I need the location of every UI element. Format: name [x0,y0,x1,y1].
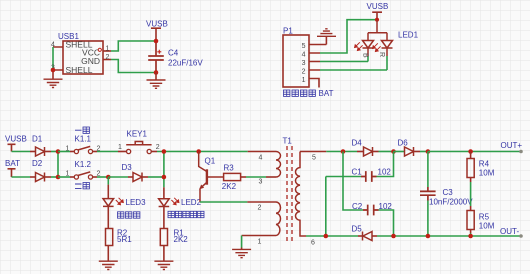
LED1 emission arrows [355,42,381,51]
capacitor C2 102 [352,202,394,236]
power port BAT (left) [5,159,20,177]
svg-text:22uF/16V: 22uF/16V [168,58,203,67]
svg-text:R5: R5 [479,212,490,221]
junction node Q1 collector [196,149,201,154]
svg-text:10M: 10M [479,221,495,230]
svg-text:2: 2 [156,144,160,151]
resistor R5 10M [467,206,495,233]
svg-text:LED2: LED2 [181,198,202,207]
junction node J2 (D4/D6/C1) [391,149,396,154]
svg-text:1: 1 [258,239,262,246]
wire VUSB to D1 [12,151,31,153]
svg-text:OUT+: OUT+ [501,141,523,150]
svg-text:6: 6 [311,240,315,247]
svg-text:4: 4 [51,42,55,49]
power port VUSB (left) [5,135,27,152]
svg-text:K1.1: K1.1 [75,135,92,144]
comment text first gear [75,129,82,131]
wire R4 to R5 [470,182,472,206]
capacitor C3 10nF/2000V [420,152,473,237]
svg-text:3: 3 [302,60,306,67]
svg-text:VUSB: VUSB [146,19,168,28]
svg-text:R4: R4 [479,159,490,168]
junction node J1 (pin5/C2 feed) [341,149,346,154]
junction node VUSB [154,39,159,44]
ground under C4 [155,73,157,80]
resistor R1 [160,229,188,246]
LED LED3 [103,198,146,229]
svg-text:B: B [362,53,369,58]
wire BAT to D2 [12,176,31,178]
wire K1.1 to KEY1 [97,151,118,153]
capacitor C1 102 [326,152,394,182]
svg-text:1: 1 [118,144,122,151]
transformer T1 [242,137,316,247]
wire Q1 emitter to T1 pin2 [200,201,247,203]
diode D2 [32,159,51,182]
comment text work indicator [168,211,174,217]
svg-text:R: R [378,52,385,57]
comment text (charging module) [284,90,290,96]
svg-text:C2: C2 [352,202,363,211]
diode D6 [394,139,421,156]
svg-text:VUSB: VUSB [367,2,389,11]
bottom row wire (pin6 to OUT-) [306,235,358,237]
T1 pin1 wire to ground [242,235,276,237]
svg-text:2K2: 2K2 [222,182,237,191]
svg-text:R3: R3 [224,164,235,173]
switch K1.2 [66,160,101,179]
ground at P1 pin5 (pointing up) [320,36,326,44]
wire LED2 column [163,152,165,188]
wire P1 pin2 to LED1 R cathode [320,69,387,71]
junction node C2/bottom [391,234,396,239]
diode D3 [122,163,149,182]
wire J3 to OUT+ [428,151,520,153]
svg-text:VUSB: VUSB [5,135,27,144]
power port VUSB (top) [146,19,168,41]
junction node D3 out [162,175,167,180]
ground under R2 [107,246,109,261]
diode D5 [352,224,378,240]
wire node to K1.1 [58,151,70,153]
junction node D2 out [56,175,61,180]
junction node USB shell [51,68,56,73]
wire C1 left down to bottom row [325,177,327,237]
svg-text:2: 2 [302,69,306,76]
diode D1 [32,135,51,157]
svg-text:C4: C4 [168,49,179,58]
junction node R5/bottom [468,234,473,239]
wire P1 pin1 to BAT [309,79,319,88]
svg-text:Q1: Q1 [205,156,216,165]
wire USB shell pins to ground [53,47,63,70]
svg-text:2K2: 2K2 [174,235,189,244]
svg-text:C3: C3 [443,188,454,197]
svg-text:P1: P1 [283,27,293,36]
wire KEY1 to Q1/T1 row [157,151,248,153]
T1 primary winding top (pins 4-3) [276,152,281,178]
wire pin2 GND to C4 bottom [103,59,111,61]
connector P1 [283,27,320,88]
svg-text:C1: C1 [352,167,363,176]
svg-text:102: 102 [378,167,392,176]
svg-text:4: 4 [302,52,306,59]
resistor R2 [106,229,133,246]
svg-text:1: 1 [66,171,70,178]
svg-text:5: 5 [302,43,306,50]
ground under T1 pin1 [241,248,243,250]
svg-text:10M: 10M [479,168,495,177]
pushbutton KEY1 [118,129,160,153]
svg-text:K1.2: K1.2 [75,160,92,169]
wire T1 pin5 to D4 [300,151,326,153]
svg-text:LED1: LED1 [398,31,419,40]
svg-text:2: 2 [106,54,110,61]
comment text UV lamp [118,212,124,218]
wire joining D1/D2 nodes [57,152,59,178]
svg-text:D6: D6 [398,139,409,148]
svg-text:1: 1 [66,145,70,152]
svg-text:OUT-: OUT- [500,227,519,236]
svg-text:BAT: BAT [319,89,334,98]
T1 secondary winding (pins 5-6) [295,152,306,237]
ground under USB1 [52,70,54,79]
svg-text:D3: D3 [122,163,133,172]
wire J1 down to C2 [343,152,363,211]
svg-text:LED3: LED3 [126,198,147,207]
svg-text:2: 2 [258,205,262,212]
resistor R3 [222,164,246,192]
junction node R4 top [468,149,473,154]
wire node to K1.2 [58,176,70,178]
svg-text:D5: D5 [352,224,363,233]
svg-text:4: 4 [259,155,263,162]
junction node VUSB/LED1 [375,18,379,22]
connector USB1 [51,32,110,75]
svg-text:5R1: 5R1 [117,235,132,244]
junction node C1/bottom [324,234,329,239]
comment text second gear [75,184,82,188]
T1 primary winding bottom (pins 2-1) [276,202,281,236]
wire node to D3 [108,176,128,178]
svg-text:SHELL: SHELL [66,65,93,75]
svg-text:10nF/2000V: 10nF/2000V [429,197,473,206]
capacitor C4 22uF/16V [148,41,203,73]
diode D4 [352,139,379,156]
wire K1.2 to LED3 node [97,176,108,178]
power port VUSB (top-right) [367,2,389,20]
ground under R1 [163,246,165,261]
wire P1 pin4 to VUSB node [320,20,376,53]
resistor R4 10M [467,152,495,183]
svg-text:D2: D2 [32,159,43,168]
svg-text:D1: D1 [32,135,43,144]
svg-text:D4: D4 [352,139,363,148]
junction node LED3 tap [106,175,111,180]
T1 core [287,146,292,243]
svg-text:1: 1 [302,77,306,84]
svg-text:BAT: BAT [5,159,20,168]
switch K1.1 [66,135,101,154]
wire pin1 VCC to VUSB node [103,50,111,52]
junction node C3/bottom [426,234,431,239]
svg-text:3: 3 [259,179,263,186]
junction node C4 bottom [154,70,159,75]
junction node J3 (D6 out/C3) [426,149,431,154]
dual LED LED1 [363,20,393,56]
wire P1 pin3 to LED1 B cathode [320,61,368,63]
wire R3 to T1 pin3 [246,176,266,178]
svg-text:KEY1: KEY1 [127,129,148,138]
LED LED2 [159,198,202,229]
transistor Q1 [199,152,224,203]
svg-text:T1: T1 [283,137,293,146]
svg-text:5: 5 [312,155,316,162]
svg-text:1: 1 [106,45,110,52]
wire LED3 column [107,177,109,185]
junction node D1 out [56,149,61,154]
junction node row1/LED2 column [162,149,167,154]
wire row1 to T1 pin4 [248,151,276,153]
